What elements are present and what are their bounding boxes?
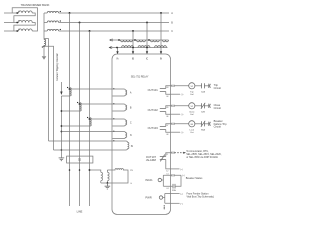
relay IC input arrow: [146, 51, 148, 54]
relay IA input arrow: [116, 51, 118, 54]
contact 52b in close circuit: [201, 103, 206, 114]
relay OUT102 output contact: [148, 106, 171, 118]
wire CPT secondary top to relay power: [107, 169, 112, 171]
wire 86a to negative terminal: [204, 123, 208, 125]
node CT row2 junction 1: [116, 47, 118, 49]
contact 52a in trip circuit: [201, 83, 205, 93]
svg-text:C: C: [130, 121, 132, 124]
wire power negative: [171, 202, 180, 204]
svg-text:(+): (+): [181, 132, 184, 134]
ground CPT secondary: [105, 183, 111, 189]
wire OUT101 trip circuit: [171, 85, 189, 87]
ground transformer neutral: [42, 56, 47, 60]
pin marks OUT103: [172, 123, 174, 125]
relay IN channel winding: [113, 140, 134, 150]
wire neutral CT bottom tap to relay IN return: [44, 46, 54, 150]
control power transformer secondary winding: [107, 170, 109, 183]
CT row1 winding group 3: [150, 40, 159, 42]
transformer T1 primary winding phase A: [4, 11, 32, 14]
node phase B voltage tap: [79, 103, 81, 105]
svg-text:OUT101: OUT101: [148, 88, 159, 92]
node phase C drop junction: [89, 30, 91, 32]
relay power supply winding: [113, 169, 134, 186]
svg-text:05: 05: [166, 107, 168, 109]
ground station ground: [59, 158, 65, 161]
wire PT neutral collector bus: [60, 96, 62, 158]
node neutral CT junction: [43, 45, 45, 47]
node collector C junction: [61, 125, 63, 127]
node CT row1 junction 2: [134, 39, 136, 41]
svg-text:C: C: [171, 30, 173, 33]
PT primary winding phase C: [61, 117, 91, 126]
CT secondary row 1 polarity arrow: [109, 39, 111, 41]
contact 52a breaker status: [172, 184, 176, 192]
svg-text:Forward Tripping Direction: Forward Tripping Direction: [56, 52, 59, 81]
node CT row1 junction 1: [118, 39, 120, 41]
node CPT secondary ground junction: [107, 182, 109, 184]
wire VN to relay: [61, 131, 112, 133]
node VN tap junction: [61, 131, 63, 133]
svg-text:IN: IN: [131, 146, 134, 148]
svg-text:C4: C4: [166, 188, 168, 190]
wire OUT101 positive return: [171, 93, 181, 95]
pin marks OUT101: [172, 85, 174, 87]
wire phase A CT drop: [160, 13, 162, 53]
svg-text:(−): (−): [180, 203, 183, 205]
breaker trip coil 52TC: [189, 83, 195, 96]
svg-text:OUT103: OUT103: [148, 126, 159, 130]
svg-text:Circuit: Circuit: [214, 125, 222, 129]
transformer T1 primary winding phase C: [4, 29, 32, 32]
wire OUT102 positive return: [171, 113, 181, 115]
CT row2 winding group 1: [122, 46, 134, 48]
wire phase B bus: [59, 22, 169, 24]
wire delta link winding B to C: [14, 23, 35, 32]
node CT row1 junction 3: [148, 39, 150, 41]
svg-text:N: N: [130, 134, 132, 137]
svg-text:IN101: IN101: [145, 178, 153, 182]
wire 52b to negative terminal: [204, 105, 208, 107]
node CT row2 junction 2: [132, 47, 134, 49]
wire phase B feeder drop: [79, 23, 81, 207]
wire CPT primary lead: [90, 170, 101, 172]
relay OUT107 alarm contact: [146, 153, 171, 173]
wire secondary wye neutral bus: [43, 13, 45, 39]
relay SEL-751 enclosure: [112, 54, 171, 214]
pin marks OUT102: [172, 105, 174, 107]
svg-text:Vital Bus (Trip Schematic): Vital Bus (Trip Schematic): [187, 195, 215, 198]
node phase B drop junction: [79, 22, 81, 24]
wire neutral bus to ground: [43, 46, 45, 57]
node phase A voltage tap: [69, 88, 71, 90]
node CT row2 junction 3: [146, 47, 148, 49]
wire phase C CT drop: [132, 31, 134, 53]
node CT drop phase B: [146, 22, 148, 24]
node ground bus junction: [61, 149, 63, 151]
relay OUT101 output contact: [148, 86, 171, 98]
wire phase A feeder drop: [69, 13, 71, 206]
svg-text:IN: IN: [160, 58, 163, 60]
relay IN input arrow: [160, 51, 162, 54]
wire close coil to 52b: [195, 105, 202, 107]
wire alarm circuit dashed: [171, 152, 172, 154]
svg-text:(+): (+): [181, 114, 184, 116]
terminal negative close: [209, 104, 211, 108]
wire VC to relay: [90, 118, 113, 120]
svg-text:SEL-751 RELAY: SEL-751 RELAY: [131, 75, 149, 78]
wire relay IA pin stub: [117, 48, 119, 54]
svg-text:52A: 52A: [201, 91, 205, 94]
svg-text:PWR: PWR: [145, 195, 151, 199]
svg-text:C1: C1: [166, 173, 168, 175]
PT primary winding phase B: [61, 102, 81, 111]
node phase A drop junction: [69, 12, 71, 14]
wire OUT103 positive return: [171, 131, 181, 133]
svg-text:Coil: Coil: [190, 94, 194, 96]
circuit breaker 52: [67, 156, 93, 163]
svg-text:Circuit: Circuit: [214, 86, 222, 90]
wire phase C feeder drop: [89, 31, 91, 206]
wire OUT102 close circuit: [171, 105, 189, 107]
relay VA input winding: [113, 88, 132, 96]
relay VN input winding: [113, 131, 132, 139]
wire phase A bus: [59, 12, 169, 14]
wire CT secondary row 2: [112, 47, 168, 49]
relay VB input winding: [113, 103, 132, 111]
node CT drop phase A: [160, 12, 162, 14]
svg-text:52B: 52B: [201, 112, 205, 114]
svg-text:52A: 52A: [172, 189, 176, 192]
svg-text:IC: IC: [146, 58, 149, 60]
relay continuation dots: [164, 205, 165, 209]
CT row1 winding group 4: [163, 40, 169, 42]
node phase C voltage tap: [89, 118, 91, 120]
relay power supply input: [145, 194, 170, 204]
CT secondary row 2 polarity arrow: [109, 46, 111, 48]
wire phase C bus: [59, 30, 169, 32]
svg-text:07: 07: [166, 125, 168, 127]
svg-text:TRANSFORMER BANK: TRANSFORMER BANK: [21, 3, 50, 7]
svg-text:12: 12: [166, 171, 168, 173]
wire 52a to negative terminal: [204, 85, 208, 87]
transformer T1 secondary winding phase B: [44, 20, 61, 22]
svg-text:(+): (+): [180, 194, 183, 196]
svg-text:or SEL-3530 via DNP SCADA: or SEL-3530 via DNP SCADA: [186, 156, 218, 159]
relay IB input arrow: [132, 51, 134, 54]
svg-text:Out: Out: [190, 131, 194, 134]
node breaker load side B: [79, 169, 81, 171]
svg-text:LINE: LINE: [77, 209, 83, 213]
svg-text:/ALARM: /ALARM: [146, 158, 157, 162]
relay OUT103 output contact: [148, 124, 171, 136]
wire CPT secondary bottom to relay power return: [101, 182, 113, 184]
wire delta link winding C to A: [12, 8, 37, 31]
wire breaker status 52a leg: [171, 175, 182, 186]
relay IN101 optocoupler input: [145, 173, 170, 190]
wire CT secondary row 1: [112, 39, 168, 41]
relay VC input winding: [113, 118, 132, 126]
node CT drop phase C: [132, 30, 134, 32]
svg-text:11: 11: [166, 154, 168, 156]
svg-text:08: 08: [166, 134, 168, 136]
svg-text:(+): (+): [181, 94, 184, 96]
svg-text:06: 06: [166, 116, 168, 118]
wire IN return lead to relay: [54, 149, 113, 151]
wire power positive: [171, 193, 180, 195]
pin marks OUT107: [172, 152, 174, 154]
breaker close coil 52CC: [189, 103, 196, 116]
transformer T1 secondary winding phase C: [44, 29, 61, 31]
terminal negative breaker failure: [209, 122, 211, 126]
svg-text:(+): (+): [182, 175, 185, 177]
CT row2 winding group 2: [138, 46, 150, 48]
svg-text:52: 52: [78, 158, 82, 162]
pin marks IN101: [172, 174, 174, 176]
node CPT tap on phase C: [89, 169, 91, 171]
wire neutral CT top tap to relay IN: [44, 39, 49, 141]
svg-text:86A: 86A: [201, 129, 205, 132]
control power transformer primary winding: [101, 172, 103, 183]
CT row2 winding group 3: [155, 46, 167, 48]
alarm circuit arrow: [183, 152, 186, 154]
wire VB to relay: [80, 103, 113, 105]
neutral CT on transformer neutral: [42, 39, 46, 48]
wire breaker status positive: [171, 174, 182, 176]
svg-text:Breaker Status: Breaker Status: [186, 177, 203, 180]
wire IN polarity lead to relay: [49, 140, 113, 142]
wire phase B CT drop: [146, 23, 148, 54]
contact 86a in breaker failure circuit: [201, 121, 206, 132]
svg-text:(+): (+): [180, 169, 183, 171]
transformer T1 primary winding phase B: [4, 20, 32, 23]
transformer T1 secondary winding phase A: [44, 11, 61, 13]
wire OUT107 return: [171, 168, 180, 170]
node breaker load side A: [69, 169, 71, 171]
svg-text:OUT102: OUT102: [148, 108, 159, 112]
wire delta link winding A to B: [14, 13, 35, 23]
svg-text:04: 04: [166, 96, 168, 98]
svg-text:Coil: Coil: [190, 114, 194, 116]
forward tripping direction arrow: [60, 82, 62, 95]
wire trip coil to 52a: [195, 85, 202, 87]
wire VA to relay: [70, 88, 113, 90]
CT row1 winding group 2: [137, 40, 146, 42]
wire OUT103 breaker failure circuit: [171, 123, 189, 125]
PT primary winding phase A: [61, 87, 71, 96]
terminal negative trip: [209, 84, 211, 88]
wire 86 to 86a: [195, 123, 202, 125]
node collector B junction: [61, 110, 63, 112]
CT row1 winding group 1: [121, 40, 133, 42]
svg-text:03: 03: [166, 87, 168, 89]
lockout relay coil 86: [189, 121, 195, 134]
svg-text:Circuit: Circuit: [214, 106, 222, 110]
